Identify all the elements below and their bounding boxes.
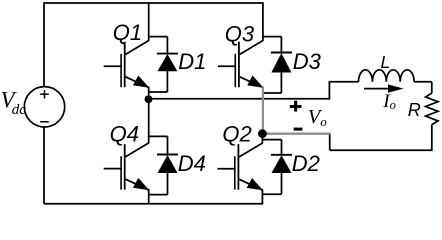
svg-text:D2: D2 xyxy=(292,151,320,176)
svg-text:L: L xyxy=(381,52,391,72)
wire: load top right segment xyxy=(414,81,432,83)
svg-text:D3: D3 xyxy=(293,49,322,74)
output current arrow Io xyxy=(364,84,404,92)
left wire lower xyxy=(43,127,45,204)
left wire upper xyxy=(43,2,45,87)
wire: load bottom left up to rail B xyxy=(329,133,331,150)
wire: resistor to load bottom xyxy=(431,125,433,151)
diode D2 xyxy=(262,140,292,195)
output minus sign xyxy=(294,128,303,131)
bottom rail xyxy=(44,203,263,205)
source minus sign xyxy=(40,121,49,123)
wire: rail A up to load top xyxy=(328,82,330,100)
svg-text:Q4: Q4 xyxy=(110,122,139,147)
diode D4 xyxy=(149,136,178,194)
svg-text:D4: D4 xyxy=(178,151,206,176)
load bottom wire xyxy=(330,149,433,151)
transistor Q3 xyxy=(218,2,264,88)
transistor Q4 xyxy=(104,99,150,204)
svg-text:R: R xyxy=(408,100,421,120)
svg-text:D1: D1 xyxy=(178,49,206,74)
wire: down to resistor xyxy=(431,82,433,93)
svg-text:o: o xyxy=(320,114,327,129)
voltage source Vdc circle xyxy=(24,87,64,127)
svg-text:Q1: Q1 xyxy=(113,20,142,45)
diode D1 xyxy=(149,37,178,92)
node B junction dot xyxy=(258,129,267,138)
grey rail B: node B to load xyxy=(262,132,330,134)
node A wire: mid rail to load (top) xyxy=(149,98,330,100)
source plus sign xyxy=(40,90,49,99)
resistor R zigzag xyxy=(426,93,438,124)
output plus sign xyxy=(290,101,302,112)
top rail xyxy=(44,2,263,4)
transistor Q1 xyxy=(104,2,150,99)
transistor Q2 xyxy=(217,134,263,204)
grey wire: Q3 emitter to node B xyxy=(262,87,264,134)
svg-text:o: o xyxy=(390,98,396,112)
diode D3 xyxy=(263,37,292,93)
inductor L coil xyxy=(359,70,415,82)
wire: load top left segment xyxy=(329,81,359,83)
svg-text:dc: dc xyxy=(12,102,26,118)
svg-text:Q3: Q3 xyxy=(225,21,255,46)
svg-text:Q2: Q2 xyxy=(222,122,251,147)
node A junction dot xyxy=(145,95,153,103)
